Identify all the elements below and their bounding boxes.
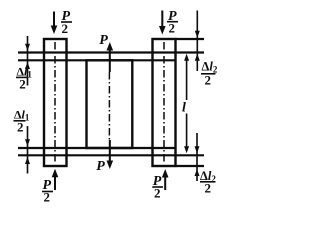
- dimension arrow down, top-right (to extension line): [195, 11, 200, 54]
- force arrow P/2 bottom-left (up onto left bar): [52, 169, 59, 190]
- svg-text:2: 2: [169, 21, 176, 36]
- dimension arrow up, bottom-right (to extension line): [195, 168, 200, 181]
- force arrow P top-center (up out of middle bar): [107, 42, 114, 72]
- l dimension arrow down (to line D): [184, 114, 189, 154]
- dimension arrow down, upper-left (to line A): [25, 36, 30, 62]
- label P/2 bottom-left: [42, 178, 53, 205]
- svg-text:l: l: [182, 101, 186, 116]
- l dimension arrow up (to line A): [184, 54, 189, 100]
- left bar centerline: [54, 42, 56, 164]
- bottom plate line C (upper line of bottom band): [18, 147, 176, 149]
- dimension arrow up, lower-left (to line D): [25, 157, 30, 174]
- left bar (tube 2) outline: [44, 39, 67, 166]
- svg-text:2: 2: [154, 186, 161, 201]
- label Δl₂/2 bottom-right: [200, 169, 216, 196]
- right bar bottom edge extension line: [176, 165, 205, 167]
- force arrow P/2 top-right (down onto right bar): [159, 11, 166, 35]
- dimension arrow down, lower-left (to line C): [25, 126, 30, 157]
- label P/2 top-left: [61, 9, 72, 36]
- svg-text:2: 2: [62, 21, 69, 36]
- label P/2 top-right: [167, 9, 178, 36]
- dimension arrow up, upper-left (to line B): [25, 62, 30, 86]
- top plate line A (upper line of top band): [18, 51, 204, 53]
- right bar (tube 2) outline: [153, 39, 176, 166]
- svg-text:2: 2: [17, 120, 24, 135]
- label Δl₁/2 lower-left: [14, 108, 30, 135]
- label Δl₁/2 upper-left: [16, 65, 32, 92]
- label P/2 bottom-right: [152, 174, 163, 201]
- svg-text:2: 2: [44, 190, 51, 205]
- svg-text:2: 2: [205, 73, 212, 88]
- svg-text:2: 2: [19, 77, 26, 92]
- svg-text:2: 2: [205, 181, 212, 196]
- dimension arrow up, top-right (to line A): [195, 54, 200, 71]
- force arrow P bottom-center (down below middle bar): [107, 140, 114, 169]
- force arrow P/2 top-left (down onto left bar): [51, 12, 58, 35]
- middle bar (bolt 1) outline: [87, 60, 133, 148]
- svg-text:P: P: [99, 33, 108, 48]
- dimension arrow down, bottom-right (to line D): [195, 133, 200, 168]
- force arrow P/2 bottom-right (up onto right bar): [162, 169, 169, 190]
- bottom plate line D (lower line of bottom band): [18, 154, 204, 156]
- top plate line B (lower line of top band): [18, 59, 176, 61]
- right bar centerline: [163, 42, 165, 164]
- middle bar centerline: [108, 72, 110, 140]
- right bar top edge extension line: [176, 38, 205, 40]
- label Δl₂/2 top-right: [201, 60, 218, 88]
- svg-text:P: P: [96, 159, 105, 174]
